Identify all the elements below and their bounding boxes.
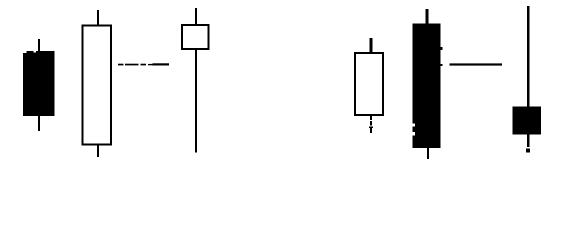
candle 1 (black) body — [23, 51, 55, 116]
candle 5 (tall black) upper shadow wire — [426, 9, 429, 24]
candle 4 (white) upper shadow wire — [370, 38, 373, 53]
candle 1 (black) lower shadow wire — [38, 116, 40, 131]
candle 3 (small white) upper shadow wire — [195, 8, 197, 25]
candle 1 scan nick top-middle — [34, 51, 37, 52]
solid level line (right pattern) — [450, 63, 503, 65]
candle 1 scan nick top-left — [23, 51, 27, 53]
candle 5 (tall black) lower shadow wire — [427, 148, 429, 159]
candle 4 (white) lower shadow wire (broken scan line) — [369, 116, 373, 133]
candle 6 (small black) body — [513, 107, 542, 135]
candle 6 (small black) long upper shadow wire — [527, 6, 530, 107]
candle 2 (tall white) lower shadow wire — [97, 146, 99, 158]
candle 3 (small white) long lower shadow wire — [195, 49, 197, 153]
candle 5 scan tick near line level — [441, 64, 443, 66]
candle 5 white scan notches on left edge — [413, 124, 416, 127]
candle 6 (small black) lower shadow wire — [527, 135, 530, 148]
candle 2 (tall white) upper shadow wire — [97, 10, 99, 25]
dashed level line (left pattern) — [118, 63, 169, 65]
candle 4 (white) body — [355, 53, 383, 115]
candle 2 (tall white) body — [83, 26, 112, 145]
candle 1 (black) upper shadow wire — [38, 39, 40, 52]
candle 5 (tall black) body — [413, 24, 441, 149]
candle 5 scan bump on right edge — [441, 47, 443, 50]
candle 3 (small white) body — [182, 25, 209, 49]
candle 6 lower shadow tail blob — [526, 149, 530, 153]
